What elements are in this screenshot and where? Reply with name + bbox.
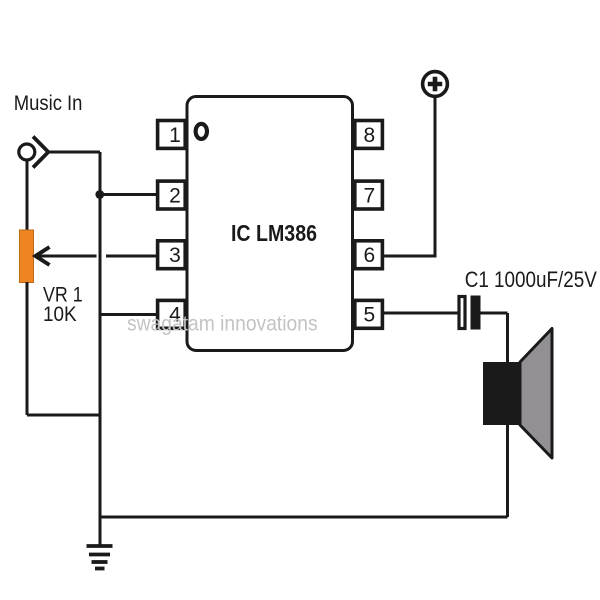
- svg-text:2: 2: [169, 184, 181, 207]
- capacitor C1: [459, 296, 481, 330]
- svg-text:5: 5: [364, 304, 376, 327]
- svg-text:IC LM386: IC LM386: [231, 221, 317, 247]
- wire speaker branch down to bottom rail: [506, 313, 509, 517]
- power supply positive terminal: [423, 72, 448, 97]
- svg-text:6: 6: [364, 244, 376, 267]
- wire junction to pin 2: [100, 193, 158, 196]
- wire jack to input bus: [48, 151, 100, 154]
- svg-text:7: 7: [364, 184, 376, 207]
- wire supply to pin 6: [384, 97, 435, 256]
- wire input bus: bottom rail to ground: [99, 517, 102, 545]
- wire input bus: VR return down to bottom rail: [99, 415, 102, 517]
- svg-text:Music In: Music In: [14, 92, 83, 115]
- ground symbol: [87, 546, 113, 569]
- potentiometer VR1 body: [20, 230, 34, 283]
- svg-text:10K: 10K: [43, 303, 77, 326]
- pin 4: [158, 300, 186, 328]
- wire pin 3 to crossover gap: [106, 255, 158, 258]
- wire bottom return rail: [100, 516, 508, 519]
- node A junction dot (input node): [95, 190, 104, 199]
- pin 2: [158, 181, 186, 209]
- wire wiper arrow shaft: [35, 255, 97, 258]
- wire VR1 return to input bus: [27, 414, 100, 417]
- IC U1 LM386 body: [187, 97, 353, 351]
- wire VR1 top lead: [26, 160, 29, 231]
- wire input bus: top to junction: [99, 152, 102, 195]
- svg-text:swagatam innovations: swagatam innovations: [127, 313, 318, 336]
- wire input bus: junction down to VR return: [99, 195, 102, 416]
- pin 8: [355, 121, 383, 149]
- pin 1: [158, 121, 186, 149]
- pin 5: [355, 300, 383, 328]
- svg-text:3: 3: [169, 244, 181, 267]
- pin 6: [355, 241, 383, 269]
- svg-text:8: 8: [364, 124, 376, 147]
- speaker LS1: [483, 329, 552, 459]
- wire pin 5 to C1: [384, 312, 458, 315]
- audio input jack J1: [19, 137, 48, 168]
- svg-text:C1 1000uF/25V: C1 1000uF/25V: [465, 268, 597, 293]
- wire C1 to speaker branch: [480, 312, 508, 315]
- wire pin 4 to input bus: [100, 313, 158, 316]
- pin 3: [158, 241, 186, 269]
- svg-text:1: 1: [169, 124, 181, 147]
- wire VR1 bottom lead: [26, 282, 29, 415]
- pin 7: [355, 181, 383, 209]
- VR1 wiper arrowhead: [36, 247, 50, 265]
- pin-1 index mark O: [196, 124, 207, 139]
